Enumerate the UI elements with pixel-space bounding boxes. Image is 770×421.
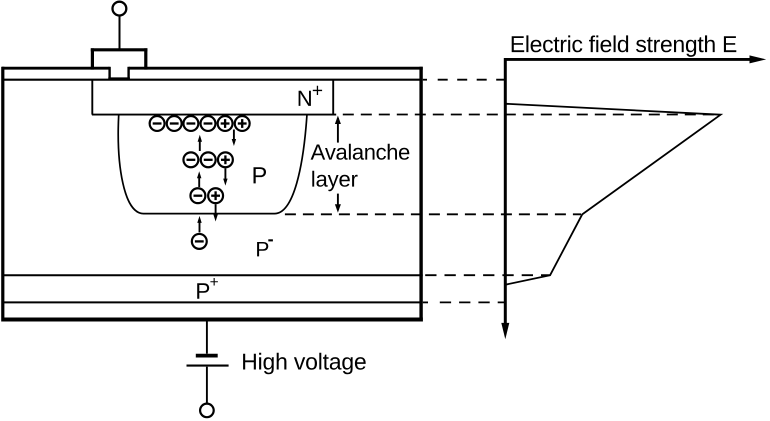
label Electric field strength E: [512, 35, 737, 57]
carrier row 1 hole circle 6: [235, 116, 250, 131]
P+ layer bottom line: [2, 301, 423, 303]
carrier row 3 hole circle 2: [208, 188, 223, 203]
arrow hole moving down from row2: [223, 168, 227, 185]
carrier row 1 electron circle 3: [183, 116, 198, 131]
graph vertical axis (depth axis): [501, 58, 509, 339]
label P of P- region: [257, 242, 268, 256]
graph horizontal axis (E axis): [505, 55, 767, 63]
dashed line N+ bottom level to field peak: [343, 114, 719, 116]
contact plug bottom: [108, 77, 130, 80]
avalanche layer dimension arrow lower segment: [335, 194, 341, 213]
arrow electron moving up row3 to row2: [197, 171, 201, 187]
carrier row 3 electron circle 1: [190, 188, 205, 203]
carrier row 1 hole circle 5: [218, 116, 233, 131]
electric field profile curve: [506, 104, 720, 285]
N+ region left edge: [91, 81, 93, 115]
contact plug right wall: [127, 67, 129, 80]
device top oxide line right of contact plug: [129, 67, 423, 70]
label superscript + of P+ layer: [210, 278, 218, 286]
solid stub of oxide bottom level beyond box edge: [423, 79, 427, 81]
bottom electrode wire lower: [206, 367, 208, 403]
dashed line P+ bottom level to axis: [440, 301, 505, 303]
P avalanche region boundary curve: [118, 115, 307, 213]
dashed line P+ top level to curve breakpoint: [425, 274, 549, 276]
device outer box bottom edge: [2, 318, 423, 322]
N+ region bottom edge: [92, 114, 336, 116]
carrier row 2 hole circle 3: [218, 152, 233, 167]
battery plate top short thick: [196, 354, 218, 358]
label P of P+ layer: [197, 283, 209, 299]
top terminal circle: [113, 2, 127, 16]
carrier row 1 electron circle 1: [150, 116, 165, 131]
carrier row 2 electron circle 1: [183, 152, 198, 167]
label superscript minus of P- region: [268, 239, 273, 241]
bottom electrode wire upper: [206, 321, 208, 354]
label N of N+ region: [299, 91, 311, 106]
dashed line avalanche bottom level to curve breakpoint: [285, 213, 581, 215]
label P of avalanche region: [254, 167, 267, 183]
carrier row 2 electron circle 2: [201, 152, 216, 167]
top metal electrode cap top: [91, 48, 148, 51]
top terminal wire: [119, 16, 121, 50]
arrow electron moving up row2 to row1: [198, 135, 202, 151]
device outer box left edge: [1, 67, 4, 322]
solid stub of P+ bottom level beyond box edge: [423, 301, 428, 303]
carrier row 4 electron circle: [192, 234, 207, 249]
label layer (line 2): [312, 171, 357, 192]
top metal electrode cap right wall: [144, 48, 147, 69]
oxide bottom line (top of N+ layer): [2, 79, 423, 81]
device top oxide line left of contact plug: [2, 67, 110, 70]
avalanche layer dimension arrow upper segment: [335, 116, 341, 143]
N+ region right edge: [332, 81, 334, 116]
top metal electrode cap left wall: [91, 48, 94, 69]
P+ layer top line: [2, 274, 423, 276]
label Avalanche (line 1): [311, 144, 410, 160]
battery plate bottom long thin: [187, 365, 229, 367]
dashed line oxide bottom level to axis: [438, 79, 506, 81]
device outer box right edge: [419, 67, 422, 322]
carrier row 1 electron circle 4: [201, 116, 216, 131]
arrow hole moving down from row3: [213, 204, 217, 221]
contact plug left wall: [108, 67, 110, 80]
bottom terminal circle: [200, 404, 214, 418]
carrier row 1 electron circle 2: [167, 116, 182, 131]
arrow hole moving down from row1: [232, 130, 236, 147]
label High voltage: [243, 353, 366, 375]
arrow electron moving up row4 to row3: [197, 216, 201, 233]
label superscript + of N+ region: [313, 86, 322, 95]
